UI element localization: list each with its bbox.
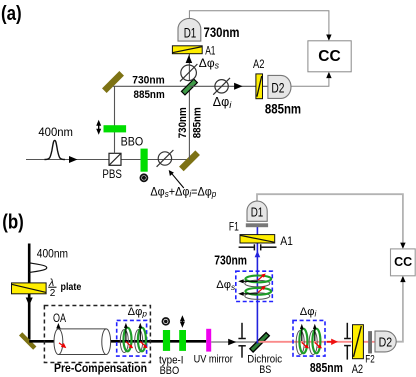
svg-text:Δφi: Δφi: [300, 306, 317, 319]
svg-text:730nm: 730nm: [214, 253, 247, 267]
svg-text:Pre-Compensation: Pre-Compensation: [54, 363, 147, 375]
svg-text:A2: A2: [253, 57, 265, 71]
svg-text:885nm: 885nm: [192, 107, 204, 138]
svg-text:A1: A1: [280, 234, 293, 248]
svg-text:UV mirror: UV mirror: [194, 353, 233, 365]
svg-text:(a): (a): [1, 2, 22, 25]
svg-text:(b): (b): [2, 211, 24, 234]
svg-text:2: 2: [50, 288, 56, 299]
svg-text:BBO: BBO: [160, 365, 180, 377]
svg-text:OA: OA: [53, 311, 66, 325]
svg-text:D1: D1: [184, 25, 197, 40]
svg-text:A2: A2: [352, 362, 364, 376]
svg-text:730nm: 730nm: [132, 75, 165, 87]
svg-text:Δφs+Δφi=Δφp: Δφs+Δφi=Δφp: [150, 186, 216, 199]
svg-text:PBS: PBS: [102, 167, 122, 181]
svg-text:730nm: 730nm: [177, 107, 189, 138]
svg-text:D2: D2: [379, 335, 393, 349]
svg-text:885nm: 885nm: [134, 89, 165, 101]
svg-text:400nm: 400nm: [37, 247, 68, 261]
svg-text:A1: A1: [205, 44, 216, 58]
svg-text:D1: D1: [251, 205, 264, 219]
svg-text:plate: plate: [61, 282, 82, 293]
svg-text:730nm: 730nm: [204, 25, 240, 40]
svg-text:BS: BS: [259, 364, 271, 376]
svg-text:F1: F1: [229, 219, 239, 233]
svg-text:CC: CC: [394, 255, 412, 269]
svg-text:D2: D2: [271, 80, 284, 95]
svg-text:400nm: 400nm: [38, 125, 73, 139]
svg-text:885nm: 885nm: [310, 361, 343, 375]
svg-text:F2: F2: [365, 354, 374, 366]
svg-text:CC: CC: [318, 48, 340, 65]
svg-text:BBO: BBO: [121, 135, 144, 149]
svg-text:885nm: 885nm: [265, 101, 301, 116]
